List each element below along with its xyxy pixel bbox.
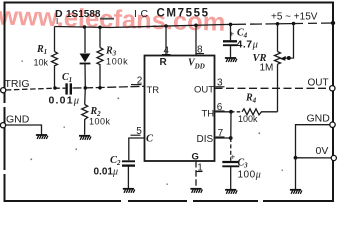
node rail-wiper junction	[292, 22, 296, 26]
capacitor C3	[222, 162, 239, 166]
svg-text:0.01μ: 0.01μ	[49, 95, 81, 107]
svg-text:+5 ~ +15V: +5 ~ +15V	[271, 12, 318, 23]
ground pin1	[190, 189, 202, 193]
svg-text:+: +	[231, 153, 236, 162]
terminal TRIG	[1, 88, 6, 93]
svg-text:TH: TH	[202, 109, 215, 120]
node rail-R3 junction	[98, 26, 102, 30]
svg-text:OUT: OUT	[194, 85, 214, 96]
scan speckles	[22, 61, 283, 185]
capacitor C4	[223, 24, 237, 57]
ground C2	[123, 189, 135, 193]
wire pin5 to C2	[129, 138, 145, 160]
pin 8 number	[196, 45, 204, 56]
wire C2 to ground	[127, 167, 129, 189]
wire TH-DIS-C3 vertical	[230, 112, 232, 138]
svg-text:C2: C2	[110, 155, 121, 167]
svg-text:G: G	[192, 152, 199, 163]
svg-text:TRIG: TRIG	[5, 78, 30, 90]
svg-text:R4: R4	[245, 93, 257, 105]
node rail-pin8 junction	[194, 24, 198, 28]
wire TRIG line left segment	[6, 88, 66, 90]
svg-text:0.01μ: 0.01μ	[94, 167, 119, 178]
svg-text:C3: C3	[238, 158, 249, 170]
wire GND down	[295, 158, 297, 189]
node rail-VR junction	[276, 22, 280, 26]
pin 1 number	[197, 162, 204, 173]
node rail-diode junction	[83, 25, 87, 29]
pin 6 number	[216, 102, 225, 113]
wire rail scan gaps	[3, 21, 321, 202]
svg-text:DIS: DIS	[197, 134, 214, 145]
terminal GND left	[0, 123, 5, 128]
svg-text:IC: IC	[134, 8, 152, 20]
svg-text:100k: 100k	[89, 117, 111, 127]
svg-text:100μ: 100μ	[238, 170, 262, 181]
wire GND right	[296, 125, 330, 158]
svg-text:10k: 10k	[34, 58, 49, 68]
ground R2	[79, 136, 91, 140]
svg-text:+: +	[230, 30, 235, 39]
node TH junction	[229, 110, 233, 114]
node rail-pin4 junction	[164, 24, 168, 28]
resistor R4	[231, 111, 242, 113]
pin 8 wire	[195, 25, 197, 55]
svg-text:VDD: VDD	[188, 58, 205, 71]
svg-text:1S1588: 1S1588	[66, 9, 101, 20]
potentiometer VR 1M	[275, 24, 281, 112]
svg-text:D: D	[55, 8, 63, 20]
pin 3 number	[216, 78, 225, 89]
wire pin7 DIS	[215, 137, 231, 139]
svg-text:4.7μ: 4.7μ	[237, 39, 259, 51]
wire V+ top rail	[55, 23, 334, 28]
resistor R1	[52, 27, 58, 88]
terminal GND right	[330, 122, 335, 127]
svg-text:100k: 100k	[106, 57, 128, 67]
wire pin3 OUT to terminal	[215, 87, 330, 89]
node rail-C4 junction	[229, 23, 233, 27]
svg-text:OUT: OUT	[308, 78, 329, 89]
scan artifact under 1S1588	[100, 18, 114, 20]
terminal OUT	[330, 86, 335, 91]
op-amp-box IC U1 CM7555	[145, 56, 215, 162]
node DIS junction	[229, 136, 233, 140]
pin 5 number	[131, 126, 143, 137]
svg-text:R: R	[160, 57, 168, 68]
ground GND-left	[36, 135, 48, 139]
svg-text:1M: 1M	[260, 63, 274, 74]
node GND-0V junction	[294, 156, 298, 160]
node rail-right-border junction	[331, 21, 335, 25]
resistor R3	[97, 27, 103, 88]
wire 0V	[296, 157, 332, 159]
pin 1 wire	[195, 161, 197, 188]
ground C3	[225, 190, 237, 194]
wire TRIG line right segment to pin 2	[73, 86, 145, 88]
wire GND left	[6, 125, 42, 135]
pin 4 wire	[165, 26, 167, 56]
svg-text:CM7555: CM7555	[157, 8, 210, 20]
node R3 junction	[98, 86, 102, 90]
svg-text:R1: R1	[36, 44, 47, 56]
wire C3 to ground	[230, 167, 232, 189]
ground C4	[225, 58, 237, 62]
pin 2 number	[131, 76, 143, 87]
VR wiper arrow	[280, 24, 294, 61]
diode D1 1S1588	[80, 27, 91, 88]
scan artifact under D	[57, 18, 58, 24]
svg-text:100k: 100k	[238, 114, 258, 124]
node TRIG-R1 junction	[53, 86, 57, 90]
ground GND-0V	[290, 190, 302, 194]
wire pin6 TH	[215, 111, 232, 113]
svg-text:TR: TR	[147, 85, 160, 96]
node D-R2 junction	[84, 86, 88, 90]
svg-text:GND: GND	[6, 114, 30, 126]
pin 4 number	[162, 46, 171, 57]
terminal 0V	[331, 155, 336, 160]
svg-text:0V: 0V	[316, 145, 329, 157]
svg-text:C: C	[146, 134, 154, 145]
resistor R2	[82, 88, 88, 135]
svg-text:C1: C1	[62, 72, 72, 84]
svg-text:GND: GND	[307, 113, 331, 125]
capacitor C1 (series)	[67, 83, 71, 94]
capacitor C2	[122, 161, 135, 165]
pin 7 number	[216, 128, 225, 139]
